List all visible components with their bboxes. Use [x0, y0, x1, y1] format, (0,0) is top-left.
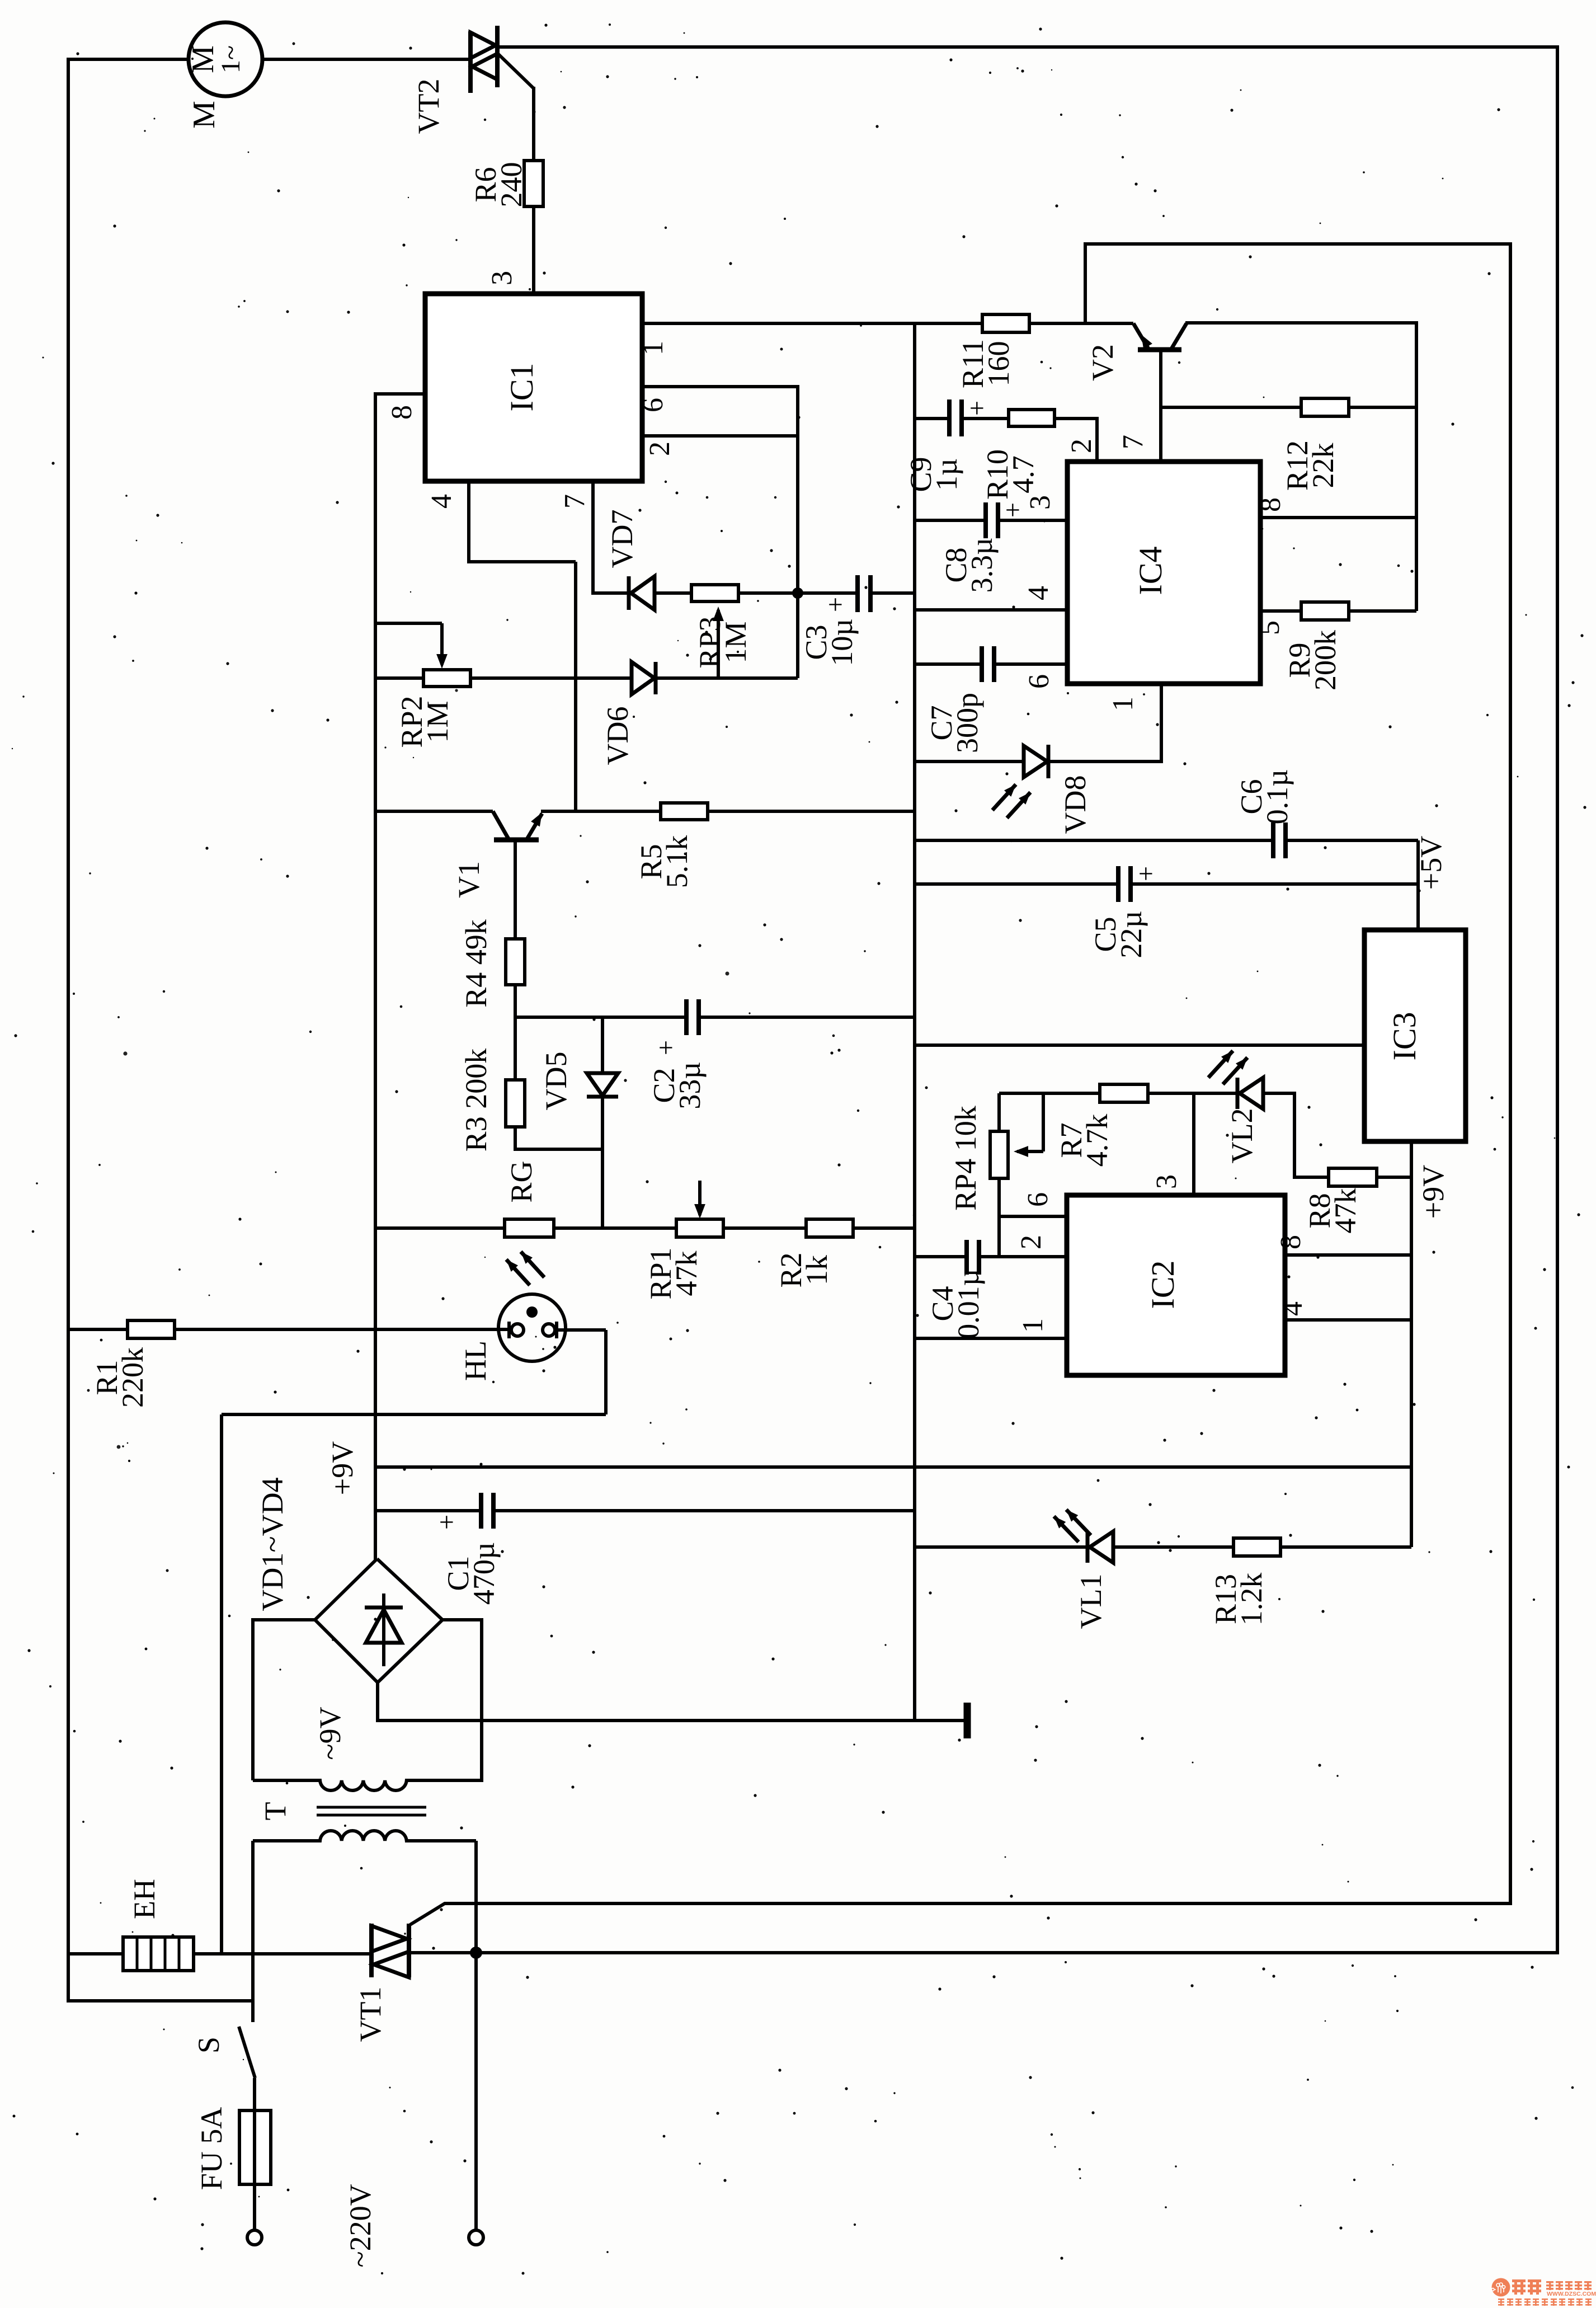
- svg-text:8: 8: [1275, 1235, 1307, 1249]
- svg-text:VD1~VD4: VD1~VD4: [256, 1477, 289, 1611]
- LED VL2: [1236, 1078, 1240, 1109]
- diode VD8 (IC4 pin 1): [915, 760, 1024, 763]
- wire: +9V bus: [375, 1465, 1411, 1469]
- light arrows into RG: [506, 1259, 530, 1285]
- capacitor C7 (IC4 pin 6): [915, 662, 982, 666]
- wire: VT2 gate to R6: [497, 53, 534, 88]
- svg-text:4: 4: [1277, 1301, 1308, 1316]
- neon lamp HL: [498, 1294, 566, 1361]
- svg-text:WWW.DZSC.COM: WWW.DZSC.COM: [1547, 2291, 1596, 2297]
- resistor R11: [982, 314, 1029, 332]
- triac VT1: [369, 1924, 374, 1977]
- svg-text:V1: V1: [452, 861, 486, 898]
- wire: IC2 pin 4: [1285, 1318, 1411, 1322]
- wire: IC1 pin 4 down and over: [467, 481, 470, 562]
- wire: R3 bottom to VD5 branch: [515, 1127, 602, 1149]
- triac VT2: [468, 31, 473, 93]
- svg-text:+: +: [1131, 866, 1161, 881]
- capacitor C3: [798, 591, 858, 595]
- svg-text:~9V: ~9V: [313, 1707, 347, 1760]
- diode VD5: [601, 1017, 604, 1073]
- wire: primary right leg: [474, 1841, 478, 1953]
- svg-text:240: 240: [495, 162, 528, 208]
- capacitor C8 (IC4 pin 3): [915, 519, 986, 522]
- svg-text:2: 2: [644, 441, 676, 456]
- wire: R11 to V2: [1029, 322, 1133, 325]
- switch S: [251, 2001, 255, 2022]
- svg-text:200k: 200k: [1308, 630, 1342, 690]
- resistor R12: [1161, 406, 1301, 409]
- wire: bottom-left border to switch S: [67, 1999, 253, 2003]
- svg-text:VD6: VD6: [601, 707, 634, 765]
- svg-text:VL1: VL1: [1074, 1574, 1108, 1629]
- transistor V1: [375, 810, 493, 813]
- svg-text:V2: V2: [1086, 344, 1119, 381]
- capacitor C6: [915, 839, 1273, 842]
- ground: [964, 1703, 971, 1738]
- node: VT1 / mains / border junction: [470, 1947, 482, 1959]
- wire: IC2 pin 1: [916, 1337, 1067, 1340]
- svg-text:3: 3: [486, 271, 518, 285]
- transformer T primary winding: [253, 1831, 476, 1841]
- svg-text:M: M: [187, 101, 222, 129]
- svg-text:1: 1: [637, 341, 669, 355]
- svg-text:0.01µ: 0.01µ: [952, 1268, 985, 1339]
- svg-text:HL: HL: [459, 1341, 492, 1381]
- svg-text:7: 7: [1117, 435, 1149, 449]
- svg-text:2: 2: [1015, 1235, 1047, 1249]
- svg-text:+: +: [432, 1515, 462, 1530]
- wire: bridge AC right to transformer: [442, 1620, 482, 1782]
- svg-text:R3 200k: R3 200k: [459, 1049, 493, 1152]
- svg-text:RP4 10k: RP4 10k: [949, 1106, 982, 1211]
- wire: IC1 pin 6: [642, 385, 798, 388]
- svg-text:~220V: ~220V: [343, 2184, 377, 2267]
- wire: center common rail: [913, 323, 916, 1721]
- svg-text:FU 5A: FU 5A: [195, 2107, 228, 2191]
- wire: mains to heater EH: [68, 1952, 123, 1956]
- capacitor C1: [375, 1509, 481, 1512]
- svg-text:1M: 1M: [421, 701, 454, 742]
- diode VD7: [593, 591, 629, 595]
- svg-text:VD7: VD7: [605, 510, 639, 568]
- wire: IC1 pin 7 to VD7: [591, 481, 595, 595]
- wire: IC1 pin 8 to +9V rail: [375, 392, 427, 396]
- svg-text:EH: EH: [128, 1879, 161, 1919]
- svg-text:5.1k: 5.1k: [660, 835, 694, 889]
- node: RP3/C3 junction: [792, 587, 803, 599]
- svg-text:VT2: VT2: [412, 79, 445, 134]
- LED VL1: [915, 1545, 1087, 1549]
- svg-text:1: 1: [1017, 1318, 1049, 1333]
- potentiometer RP3: [691, 585, 738, 601]
- svg-text:VD8: VD8: [1058, 775, 1092, 834]
- svg-text:+: +: [998, 502, 1028, 518]
- wire: IC1 pin 2: [642, 434, 798, 438]
- wire: bottom border: [476, 1951, 1559, 1954]
- svg-text:1: 1: [1107, 697, 1139, 711]
- svg-text:1.2k: 1.2k: [1235, 1573, 1268, 1626]
- wire: HL return loop: [557, 1328, 606, 1332]
- resistor R5: [661, 803, 708, 820]
- resistor R3: [514, 1017, 517, 1080]
- fuse FU 5A: [253, 2078, 256, 2110]
- wire: IC1 pin 1 to R11 and V2: [642, 322, 982, 325]
- svg-text:4: 4: [1023, 586, 1054, 600]
- svg-text:+9V: +9V: [1416, 1165, 1450, 1219]
- timer IC4: [1067, 462, 1260, 684]
- svg-text:IC2: IC2: [1145, 1261, 1181, 1309]
- svg-text:6: 6: [1023, 674, 1055, 689]
- wire: IC4 pin 4: [915, 608, 1067, 612]
- svg-text:160: 160: [982, 341, 1015, 387]
- resistor R9 (IC4 pin 5): [1260, 609, 1301, 613]
- svg-text:47k: 47k: [670, 1251, 703, 1296]
- svg-text:33µ: 33µ: [673, 1061, 707, 1109]
- wire: IC4 pin 8: [1260, 516, 1416, 519]
- svg-text:3.3µ: 3.3µ: [965, 538, 999, 593]
- svg-text:4.7k: 4.7k: [1080, 1114, 1114, 1167]
- svg-text:1~: 1~: [216, 45, 246, 73]
- svg-text:6: 6: [637, 398, 669, 412]
- svg-text:3: 3: [1024, 495, 1056, 510]
- resistor R10: [1009, 410, 1054, 426]
- svg-text:1M: 1M: [719, 621, 752, 663]
- svg-text:4: 4: [426, 494, 458, 509]
- wire: IC2 pin 6: [999, 1215, 1067, 1218]
- wire: IC3 bottom +9V feed: [1410, 1141, 1413, 1547]
- diode VD6: [470, 676, 632, 680]
- svg-text:R4 49k: R4 49k: [459, 919, 493, 1008]
- svg-text:IC4: IC4: [1132, 547, 1169, 595]
- resistor R6: [524, 161, 543, 206]
- svg-text:8: 8: [386, 405, 418, 420]
- wire: right border: [1556, 45, 1559, 1954]
- wire: +5V to IC3: [1416, 840, 1420, 932]
- svg-text:47k: 47k: [1329, 1188, 1362, 1234]
- svg-text:2: 2: [1066, 439, 1098, 453]
- svg-text:3: 3: [1151, 1174, 1183, 1189]
- svg-text:22µ: 22µ: [1114, 910, 1148, 958]
- timer IC2: [1067, 1195, 1285, 1375]
- svg-text:IC3: IC3: [1386, 1012, 1423, 1061]
- svg-text:4.7: 4.7: [1006, 455, 1040, 493]
- wire: common to IC3 input: [915, 1043, 1364, 1047]
- svg-text:IC1: IC1: [503, 363, 540, 412]
- svg-text:5: 5: [1254, 621, 1286, 635]
- svg-text:VD5: VD5: [539, 1052, 573, 1111]
- svg-text:6: 6: [1022, 1192, 1054, 1207]
- wire: V1 emitter / R5 node: [541, 810, 661, 813]
- svg-text:8: 8: [1255, 497, 1287, 512]
- svg-text:VL2: VL2: [1225, 1108, 1259, 1164]
- photoresistor RG: [375, 1226, 505, 1230]
- resistor R4: [506, 939, 525, 985]
- svg-text:470µ: 470µ: [467, 1542, 501, 1605]
- wire: pins 6/2 bus down to node C3/RP3: [796, 385, 799, 678]
- svg-text:1µ: 1µ: [930, 458, 963, 491]
- svg-text:+: +: [962, 401, 992, 416]
- resistor R8: [1329, 1168, 1377, 1186]
- watermark logo: [1491, 2278, 1596, 2306]
- transistor V2: [1133, 323, 1149, 350]
- capacitor C2: [515, 1016, 686, 1019]
- wire: IC2 pin 3: [1192, 1093, 1195, 1195]
- regulator IC3: [1364, 930, 1466, 1141]
- transformer T core: [317, 1806, 426, 1809]
- capacitor C9: [915, 417, 949, 420]
- svg-text:22k: 22k: [1306, 443, 1340, 488]
- svg-text:1k: 1k: [800, 1255, 834, 1285]
- svg-text:0.1µ: 0.1µ: [1260, 769, 1294, 825]
- potentiometer RP4: [990, 1131, 1008, 1178]
- heater EH: [123, 1937, 194, 1971]
- capacitor C4 (IC2 pin 2): [916, 1255, 967, 1258]
- terminal ~220V: [474, 1953, 478, 2230]
- wire: VT1 gate loop (to V2 collector): [410, 244, 1510, 1925]
- resistor R1: [68, 1328, 128, 1331]
- potentiometer RP1: [554, 1226, 676, 1230]
- svg-text:300p: 300p: [950, 693, 984, 753]
- wire: left border (mains L): [67, 58, 70, 2003]
- wire: EH to VT1: [194, 1952, 371, 1956]
- wire: mains top-left to motor: [68, 58, 189, 61]
- svg-text:+: +: [651, 1040, 681, 1055]
- wire: IC2 pin 8: [1285, 1253, 1411, 1257]
- resistor R2: [723, 1226, 806, 1230]
- transformer T secondary winding: [253, 1780, 482, 1790]
- capacitor C5: [915, 882, 1118, 886]
- wire: V2 emitter bus down: [1415, 321, 1418, 611]
- wire: VT1 to junction node: [409, 1951, 478, 1954]
- wire: bridge AC left to transformer: [253, 1620, 315, 1780]
- wire: +9V rail vertical (IC1 pin8 / RP2 / V1 / bridge +): [374, 392, 377, 1560]
- svg-text:S: S: [192, 2037, 225, 2053]
- svg-text:+9V: +9V: [326, 1441, 359, 1495]
- light arrows into VD8: [1007, 792, 1030, 818]
- wire: R4 to C2 node: [514, 985, 517, 1017]
- resistor R7: [999, 1092, 1100, 1095]
- svg-text:220k: 220k: [116, 1347, 149, 1408]
- wire: R6 to IC1 pin 3: [532, 206, 535, 295]
- svg-text:VT1: VT1: [354, 1987, 387, 2042]
- wire: primary left leg: [251, 1841, 255, 2003]
- svg-text:RG: RG: [505, 1160, 538, 1202]
- svg-text:7: 7: [559, 494, 591, 509]
- potentiometer RP2: [375, 622, 442, 625]
- svg-text:T: T: [258, 1802, 292, 1821]
- wire: top border (VT2 to top-right corner): [496, 45, 1557, 49]
- svg-text:10µ: 10µ: [825, 618, 859, 666]
- bridge rectifier VD1~VD4: [315, 1559, 442, 1682]
- resistor R13: [1234, 1538, 1280, 1556]
- svg-text:M: M: [186, 45, 220, 73]
- svg-text:+: +: [821, 597, 850, 612]
- wire: bridge negative to ground rail: [378, 1682, 967, 1721]
- op-amp IC1: [425, 294, 642, 481]
- wire: motor to triac VT2: [262, 58, 470, 61]
- motor M: [189, 22, 262, 96]
